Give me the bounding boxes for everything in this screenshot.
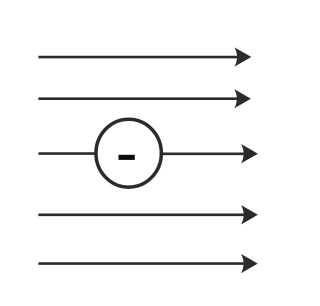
field line 2: [38, 89, 251, 108]
negative charge circle: [96, 119, 161, 187]
field line 1 (top arrow): [38, 47, 251, 66]
minus sign: [119, 155, 135, 160]
field line 3 left segment (into charge): [38, 152, 95, 155]
field line 5 (bottom arrow): [38, 254, 257, 273]
field line 4: [38, 205, 258, 224]
field line 3 right segment with arrowhead: [162, 144, 258, 163]
